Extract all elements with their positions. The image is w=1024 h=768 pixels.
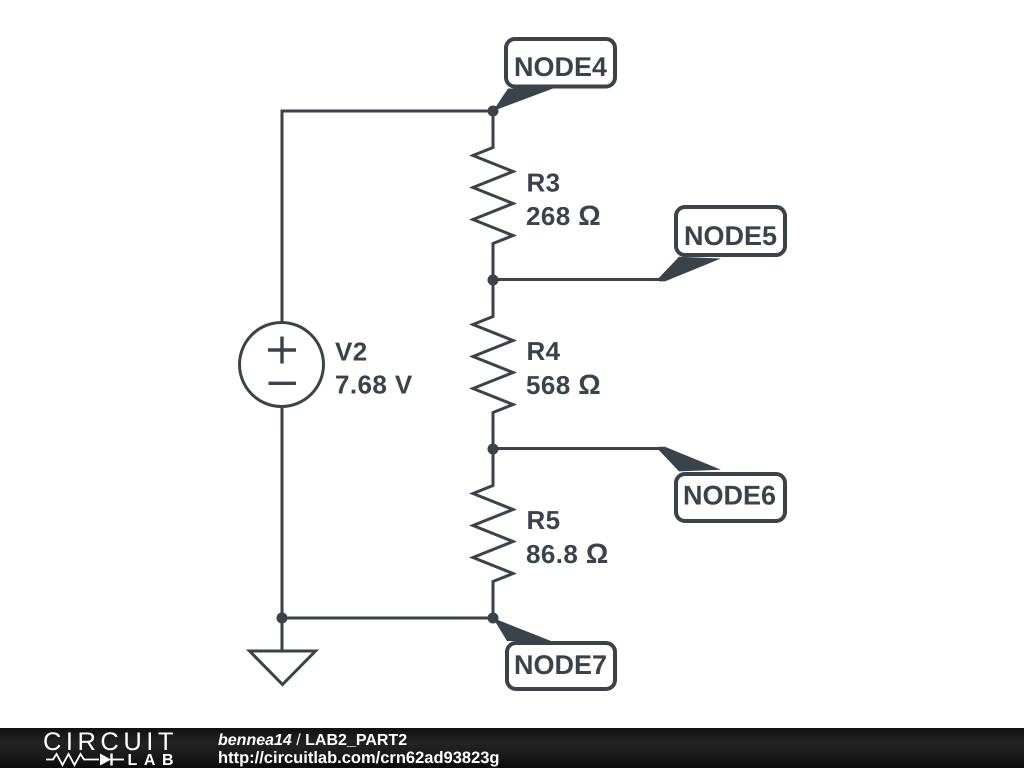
svg-text:NODE6: NODE6 xyxy=(683,481,776,511)
svg-text:R5: R5 xyxy=(527,505,561,535)
value label R4 568 Ω xyxy=(526,336,601,400)
svg-text:86.8 Ω: 86.8 Ω xyxy=(526,538,609,569)
wire NODE5 tap horizontal xyxy=(493,278,660,281)
svg-text:V2: V2 xyxy=(335,337,368,367)
ground xyxy=(250,651,316,685)
svg-text:R4: R4 xyxy=(527,336,561,366)
wire ground stub xyxy=(281,618,284,651)
junction at NODE4 xyxy=(488,106,499,117)
resistor R3 xyxy=(473,111,513,280)
resistor R5 xyxy=(473,449,513,618)
svg-text:NODE5: NODE5 xyxy=(684,221,777,251)
node NODE5 flag tail xyxy=(659,257,721,282)
wire from NODE4 junction to V2 positive terminal xyxy=(282,111,493,322)
node NODE4 label xyxy=(506,39,615,87)
svg-text:bennea14 / LAB2_PART2: bennea14 / LAB2_PART2 xyxy=(218,732,407,749)
junction at V2 negative rail xyxy=(277,613,288,624)
value label R3 268 Ω xyxy=(526,168,601,232)
svg-text:R3: R3 xyxy=(527,168,561,198)
voltage source V2 xyxy=(240,323,324,407)
svg-text:568 Ω: 568 Ω xyxy=(526,369,601,400)
node NODE7 label xyxy=(507,643,615,689)
value label V2 7.68 V xyxy=(335,337,413,400)
node NODE7 flag tail xyxy=(493,618,551,641)
wire from V2 negative terminal to NODE7 junction xyxy=(282,408,493,618)
wire NODE6 tap horizontal xyxy=(493,447,662,450)
svg-text:268 Ω: 268 Ω xyxy=(526,200,601,231)
node NODE6 label xyxy=(676,474,785,521)
svg-text:http://circuitlab.com/crn62ad9: http://circuitlab.com/crn62ad93823g xyxy=(218,749,500,767)
svg-text:NODE7: NODE7 xyxy=(514,650,607,680)
svg-text:LAB: LAB xyxy=(128,752,181,768)
resistor R4 xyxy=(473,280,513,449)
junction at NODE7 xyxy=(488,613,499,624)
node NODE4 flag tail xyxy=(493,89,553,112)
svg-text:NODE4: NODE4 xyxy=(514,52,607,82)
node NODE6 flag tail xyxy=(659,447,721,472)
node NODE5 label xyxy=(676,207,785,255)
junction at NODE6 xyxy=(488,444,499,455)
svg-text:7.68 V: 7.68 V xyxy=(335,370,413,400)
value label R5 86.8 Ω xyxy=(526,505,609,569)
footer bar xyxy=(0,728,1024,768)
junction at NODE5 xyxy=(488,275,499,286)
footer logo resistor-diode squiggle xyxy=(46,754,124,766)
